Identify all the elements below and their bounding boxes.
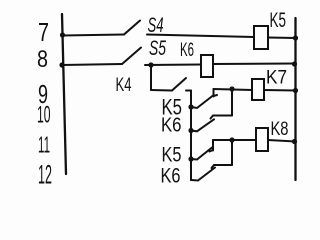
left bus [62, 14, 66, 174]
junction dot row8 right bus [292, 61, 297, 66]
wire row7 left [62, 35, 124, 36]
svg-text:S5: S5 [149, 37, 166, 60]
label K6 coil [180, 40, 194, 61]
label S4 [148, 14, 164, 37]
wire row8 left [62, 64, 122, 65]
wire group1 right rail [231, 89, 233, 116]
wire K8 coil to right bus [268, 140, 296, 142]
contact K5 row9 fixed terminal [214, 89, 218, 97]
junction dot row7 right bus [293, 35, 298, 40]
wire row8 middle [145, 64, 201, 67]
label K7 coil [266, 67, 287, 89]
junction dot K8 right bus [292, 139, 297, 144]
wire K7 coil to right bus [264, 89, 296, 92]
wire group2 to K8 [213, 139, 256, 141]
junction dot S5 output [148, 62, 153, 67]
svg-text:K6: K6 [180, 40, 194, 61]
junction dot K6 contact row10 [188, 128, 193, 133]
svg-text:7: 7 [38, 19, 49, 47]
wire K5 coil to right bus [268, 37, 296, 40]
svg-text:K6: K6 [161, 164, 181, 188]
label K8 coil [271, 119, 289, 140]
svg-text:8: 8 [37, 46, 48, 73]
svg-text:10: 10 [37, 102, 51, 129]
junction dot row8 left bus [59, 62, 64, 67]
label K5 row9 [162, 95, 183, 120]
contact K5 row9 blade [191, 96, 213, 109]
svg-text:11: 11 [38, 132, 50, 158]
wire K4 branch horizontal [151, 89, 172, 92]
switch S4 blade [124, 21, 140, 35]
wire K6 coil to right bus [213, 63, 296, 66]
contact K5 row11 fixed terminal [210, 140, 214, 152]
label K4 [116, 75, 132, 96]
svg-text:K5: K5 [270, 9, 287, 32]
wire row7 right of S4 [147, 35, 254, 38]
svg-text:K7: K7 [266, 67, 287, 89]
contact K6 row12 blade [191, 168, 215, 181]
node 7 [38, 19, 49, 47]
label K6 row10 [161, 115, 182, 137]
wire K4 output tick [186, 90, 191, 92]
contact K6 row12 fixed terminal [212, 165, 233, 168]
relay coil K7 [252, 79, 264, 100]
wire group2 right rail [231, 140, 233, 165]
contact K4 blade [172, 78, 186, 91]
label K5 coil [270, 9, 287, 32]
contact K6 row10 blade [191, 119, 214, 131]
junction dot row7 left bus [60, 32, 65, 37]
svg-text:K4: K4 [116, 75, 132, 96]
label K6 row12 [161, 164, 181, 188]
switch S5 blade [122, 48, 141, 65]
wire left rail [190, 91, 192, 181]
junction dot group1 rail [229, 86, 234, 91]
node 10 [37, 102, 51, 129]
svg-text:S4: S4 [148, 14, 164, 37]
junction dot K5 contact row9 [188, 104, 193, 109]
relay coil K8 [256, 128, 268, 151]
wire group1 to K7 [214, 89, 253, 90]
junction dot group2 rail [229, 137, 234, 142]
relay coil K5 [254, 26, 268, 49]
wire K4 branch vertical [150, 65, 152, 90]
right bus [294, 18, 296, 180]
node 11 [38, 132, 50, 158]
node 12 [38, 160, 52, 190]
node 8 [37, 46, 48, 73]
svg-text:K6: K6 [161, 115, 182, 137]
junction dot K5 contact row11 [188, 156, 193, 161]
svg-text:K8: K8 [271, 119, 289, 140]
svg-text:12: 12 [38, 160, 52, 190]
contact K5 row11 blade [191, 148, 212, 160]
junction dot K7 right bus [293, 88, 298, 93]
label K5 row11 [162, 143, 182, 167]
relay coil K6 [201, 55, 213, 77]
label S5 [149, 37, 166, 60]
contact K6 row10 fixed terminal [211, 116, 233, 119]
node 9 [38, 79, 48, 109]
